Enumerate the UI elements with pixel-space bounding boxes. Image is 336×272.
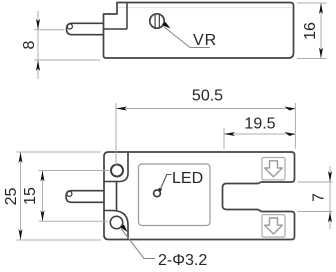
dim 15 extension line bottom (to bottom hole) [39,220,109,222]
dim 16 arrow top (points up) [319,3,323,14]
bottom mounting tab interior line [104,211,128,240]
dim 19.5 extension line left (slot end) [223,128,225,149]
optical axis mark square bottom [262,215,285,237]
svg-text:16: 16 [302,22,319,40]
LED window box [139,164,211,226]
dim 7 dimension line [329,166,331,229]
cable (top view) [67,23,105,34]
dim 7 extension line bottom [298,211,333,213]
svg-text:50.5: 50.5 [192,88,223,105]
body outline front view with fork slot [104,152,295,240]
body outline top view [104,3,294,59]
dim 7 arrow lower (points up) [328,212,332,223]
optical axis arrow bottom [265,218,283,234]
cable end curl (top view) [67,24,72,29]
optical axis arrow top [265,161,283,177]
dim 19.5 arrow right [284,132,295,136]
dim 7 arrow upper (points down) [328,171,332,182]
dim 19.5 dimension line [224,133,295,135]
dim 50.5 arrow right [284,107,295,111]
dim 15 extension line top (to top hole) [39,170,110,172]
dim 25 extension line top [17,151,102,153]
svg-text:7: 7 [311,193,328,202]
VR leader line [164,27,211,48]
cable end curl (front view) [67,191,72,196]
dim 15 arrow top (points up) [41,171,45,182]
cable gland interior vertical line [126,3,128,29]
dim 8 arrow lower (points up) [36,60,40,71]
dim 16 extension line bottom [297,58,327,60]
svg-text:15: 15 [22,187,39,205]
dim 16 arrow bottom (points down) [319,48,323,59]
dim 16 dimension line [320,3,322,59]
dim 8 extension line top (cable centerline) [34,29,64,31]
optical axis mark square top [262,158,285,180]
mounting hole bottom [110,216,122,228]
dim 8 arrow upper (points down) [36,19,40,30]
dim 16 extension line top [297,2,327,4]
dim 50.5 dimension line [116,108,295,110]
cable (front view) [66,191,104,203]
dim 50.5 extension line left (to top hole) [115,103,117,165]
2-Φ3.2 leader line [121,229,155,259]
dim 15 arrow bottom (points down) [41,210,45,221]
mounting hole top [111,165,123,177]
dim 7 extension line top [298,181,333,183]
svg-text:2-Φ3.2: 2-Φ3.2 [158,252,207,269]
seam line (faint) on top face [118,7,292,9]
svg-text:19.5: 19.5 [244,116,275,133]
svg-text:LED: LED [172,170,203,187]
svg-text:VR: VR [193,32,217,49]
cable channel interior vertical line [116,182,118,211]
dim 25 arrow top (points up) [19,152,23,163]
dim 25 arrow bottom (points down) [19,229,23,240]
LED leader dot [158,188,161,191]
dim 19.5 arrow left [224,132,235,136]
dim 50.5 arrow left [116,107,127,111]
VR screw slot [154,15,156,28]
VR adjuster screw circle [150,14,164,28]
LED leader line [161,175,172,190]
dim 50.5 / 19.5 extension line right [294,103,296,149]
dim 25 dimension line [20,152,22,240]
LED indicator symbol [154,190,161,197]
2-Φ3.2 leader arrowhead [120,225,128,233]
dim 25 extension line bottom [17,239,102,241]
svg-text:25: 25 [3,188,20,206]
top mounting tab interior line [104,152,128,182]
cable gland interior horizontal line [104,28,127,30]
dim 8 extension line bottom [34,59,100,61]
svg-text:8: 8 [21,40,38,49]
dim 8 dimension line [37,11,39,79]
dim 15 dimension line [42,171,44,222]
VR leader arrowhead [162,22,171,29]
